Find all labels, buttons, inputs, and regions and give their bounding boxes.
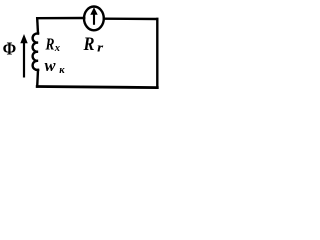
wire left upper segment	[36, 18, 39, 33]
wire top-left segment	[37, 17, 84, 20]
galvanometer circle Rg	[84, 7, 104, 31]
wire bottom	[37, 87, 157, 88]
svg-text:R: R	[45, 35, 55, 54]
svg-text:Φ: Φ	[3, 39, 17, 59]
svg-text:к: к	[59, 65, 65, 76]
wire right side	[156, 19, 158, 88]
svg-text:w: w	[45, 56, 57, 75]
arrow inside galvanometer	[90, 7, 97, 25]
svg-text:х: х	[54, 43, 60, 54]
wire left lower segment	[36, 70, 39, 87]
flux arrow (up)	[20, 34, 27, 78]
svg-text:R: R	[83, 35, 95, 55]
wire top-right segment	[104, 18, 158, 21]
coil w_k (inductor bumps)	[33, 33, 38, 69]
